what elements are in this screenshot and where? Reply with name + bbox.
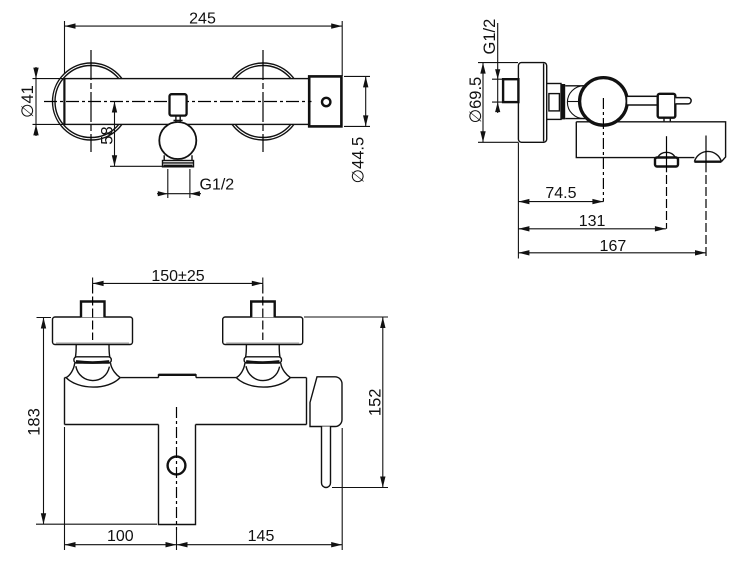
wall extension line bbox=[517, 142, 519, 258]
arrows 100 bbox=[65, 542, 76, 547]
svg-text:58: 58 bbox=[99, 126, 117, 144]
dim 44.5 extensions bbox=[344, 76, 370, 126]
dim 41 line bbox=[35, 67, 37, 136]
left neck bbox=[75, 345, 109, 358]
connector inner rect bbox=[549, 94, 560, 111]
dim G1/2 side extensions bbox=[492, 79, 503, 102]
inlet nipple G1/2 (side) bbox=[503, 79, 518, 102]
svg-text:245: 245 bbox=[189, 11, 216, 28]
arrows G1/2 side (outside) bbox=[495, 69, 500, 79]
tube hole bbox=[168, 457, 186, 475]
centerlines of top view bbox=[44, 50, 312, 152]
right nipple bbox=[251, 302, 275, 318]
dim 100/145 extensions bbox=[65, 427, 343, 550]
left nipple bbox=[81, 302, 105, 318]
diverter neck bbox=[176, 116, 180, 122]
dim 152 line bbox=[382, 317, 384, 488]
dim 167 line bbox=[518, 252, 706, 254]
left drapery outer bbox=[66, 378, 120, 387]
left ring nut bbox=[74, 357, 111, 363]
right ring nut bbox=[244, 357, 281, 363]
shower outlet centerline bbox=[666, 136, 668, 172]
right escutcheon shadow bbox=[226, 342, 299, 344]
dim 58 line bbox=[114, 102, 116, 167]
dim 74.5 line bbox=[518, 201, 603, 203]
left ring bold bbox=[76, 362, 109, 363]
outlet collar below holder bbox=[164, 155, 192, 160]
svg-text:100: 100 bbox=[107, 528, 134, 545]
arrows 152 bbox=[380, 317, 385, 328]
valve flange bold bar bbox=[561, 84, 565, 119]
dim G1/2 side leader bbox=[497, 23, 499, 113]
spout chord bold bbox=[694, 160, 721, 162]
dim G1/2 line bbox=[157, 193, 201, 195]
arrows 44.5 (inside) bbox=[363, 76, 368, 87]
left escutcheon circle inner bbox=[55, 66, 127, 138]
left escutcheon bbox=[53, 317, 133, 345]
drop tube bbox=[159, 425, 196, 525]
right circle vertical centerline bbox=[262, 50, 264, 152]
dim G1/2 extensions bbox=[168, 169, 190, 198]
arrows 131 bbox=[518, 226, 529, 231]
right drapery inner bbox=[246, 366, 280, 380]
knob centerline bbox=[602, 98, 604, 202]
dim 150+-25 line bbox=[93, 282, 263, 284]
svg-text:∅69.5: ∅69.5 bbox=[467, 77, 485, 124]
body (front) bbox=[65, 378, 307, 425]
handle rod bbox=[322, 427, 331, 488]
dim 41 extension lines bbox=[33, 79, 67, 125]
arrows 74.5 bbox=[518, 199, 529, 204]
outlet flange bbox=[163, 161, 194, 167]
dim 69.5 line bbox=[482, 63, 484, 143]
left drapery inner bbox=[76, 366, 110, 380]
arrows 167 bbox=[518, 250, 529, 255]
arrows 69.5 bbox=[480, 63, 485, 74]
left funnel sides bbox=[66, 363, 120, 378]
svg-text:183: 183 bbox=[26, 408, 44, 436]
right neck bbox=[246, 345, 280, 358]
svg-text:150±25: 150±25 bbox=[151, 268, 204, 285]
left unit centerline bbox=[92, 285, 94, 341]
svg-text:167: 167 bbox=[600, 238, 627, 255]
right unit centerline bbox=[262, 285, 264, 341]
lever stem bbox=[664, 118, 670, 122]
right drapery outer bbox=[236, 378, 290, 387]
dim 183 line bbox=[43, 318, 45, 525]
handle block bbox=[310, 377, 342, 427]
lever bar bbox=[627, 96, 658, 105]
lever knob square bbox=[658, 94, 676, 118]
right escutcheon bbox=[223, 317, 303, 345]
svg-text:G1/2: G1/2 bbox=[481, 19, 499, 55]
arrows 41 (outside) bbox=[33, 68, 38, 79]
shower outlet nut bbox=[655, 158, 678, 167]
right escutcheon circle outer bbox=[225, 63, 302, 140]
left escutcheon circle outer bbox=[53, 63, 130, 140]
shower holder circle (plan) bbox=[159, 122, 196, 159]
right escutcheon circle inner bbox=[227, 66, 299, 138]
arrows 150+-25 bbox=[93, 281, 104, 286]
svg-text:152: 152 bbox=[366, 389, 384, 417]
dim 131 line bbox=[518, 228, 666, 230]
dim 100/145 line bbox=[65, 544, 343, 546]
handle end cap (plan) bbox=[309, 76, 341, 126]
left escutcheon shadow bbox=[56, 342, 129, 344]
lever end bar bbox=[675, 98, 691, 104]
mixer body (plan) bbox=[64, 79, 309, 125]
body axis centerline bbox=[44, 101, 312, 103]
body left end edge bbox=[63, 79, 65, 125]
diverter bump bbox=[159, 375, 197, 378]
dim 150+-25 extensions bbox=[93, 278, 263, 285]
spout dome bbox=[694, 151, 721, 161]
wall escutcheon (side) bbox=[518, 63, 546, 143]
connector block bbox=[547, 84, 561, 120]
dim 245 extension lines bbox=[65, 21, 343, 76]
outlet flange bold bottom bbox=[164, 165, 193, 168]
shower outlet dome bbox=[658, 152, 676, 157]
cartridge mini centerline bbox=[568, 101, 580, 103]
dim 58 bottom extension bbox=[110, 165, 163, 167]
spout centerline bbox=[705, 136, 707, 173]
arrows 58 (inside) bbox=[112, 102, 117, 113]
handle screw hole bbox=[322, 98, 330, 106]
svg-text:∅44.5: ∅44.5 bbox=[350, 137, 368, 184]
lower body (side) bbox=[576, 122, 725, 162]
svg-text:∅41: ∅41 bbox=[19, 85, 37, 118]
svg-text:145: 145 bbox=[248, 528, 275, 545]
left circle vertical centerline bbox=[90, 50, 92, 152]
dim 69.5 extensions bbox=[478, 63, 518, 143]
svg-text:74.5: 74.5 bbox=[545, 185, 576, 202]
dim 245 line bbox=[65, 25, 343, 27]
tube centerline bbox=[176, 407, 178, 530]
cartridge housing top/bottom bbox=[565, 86, 588, 119]
arrows G1/2 (outside) bbox=[158, 191, 168, 196]
diverter neck base tabs bbox=[174, 119, 183, 121]
arrows 145 bbox=[177, 542, 188, 547]
control knob circle bbox=[580, 78, 628, 126]
arrows 183 bbox=[41, 318, 46, 329]
cartridge housing arc bbox=[567, 86, 583, 119]
right ring bold bbox=[246, 362, 279, 363]
svg-text:G1/2: G1/2 bbox=[200, 177, 235, 194]
escutcheon face line bbox=[543, 64, 545, 142]
right funnel sides bbox=[236, 363, 290, 378]
diverter knob (plan) bbox=[170, 94, 187, 115]
svg-text:131: 131 bbox=[579, 213, 606, 230]
dim 152 extensions bbox=[304, 317, 388, 488]
dim 44.5 line bbox=[365, 76, 367, 126]
dim 183 extensions bbox=[36, 318, 157, 525]
outlet flange mid line bbox=[163, 162, 194, 164]
arrows 245 bbox=[65, 23, 76, 28]
